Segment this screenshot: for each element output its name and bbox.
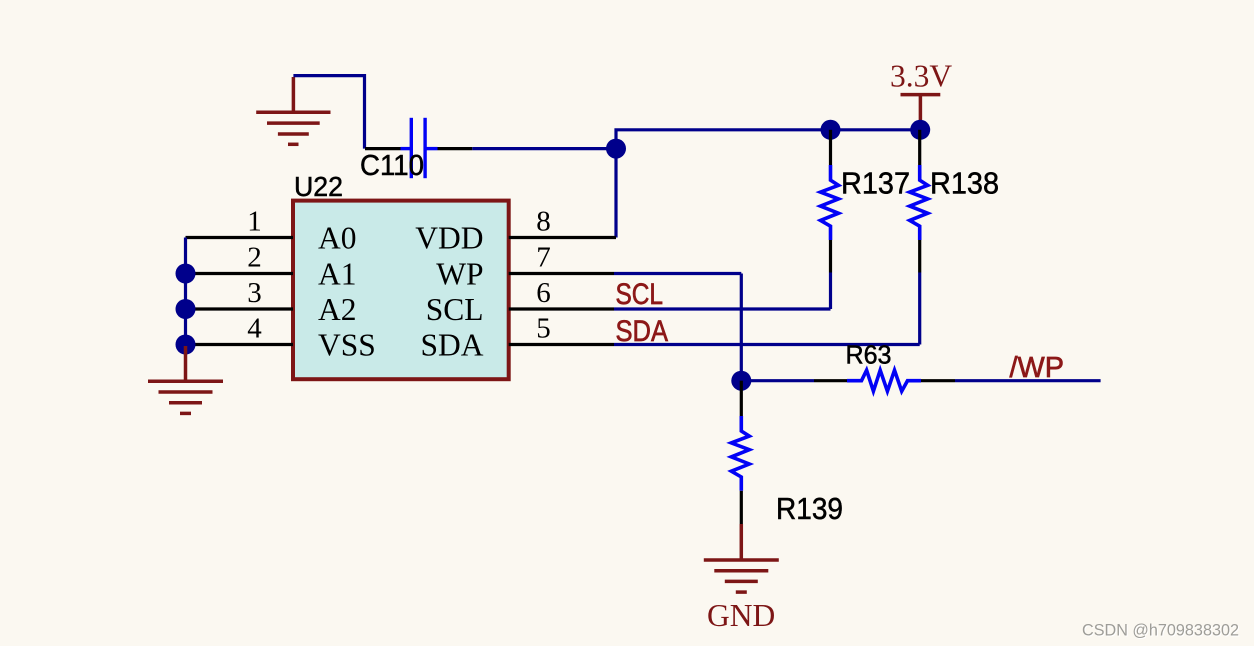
node: WP/R139/R63 junction	[731, 371, 751, 391]
resistor R137	[821, 130, 839, 309]
wire: junction to R63	[741, 379, 814, 382]
power 3.3V	[901, 95, 941, 126]
node: R137 top	[821, 120, 841, 140]
wire: WP net vertical down	[740, 274, 743, 381]
node: pin3 junction	[176, 299, 196, 319]
wire: left pins vertical bus	[184, 238, 187, 345]
svg-text:6: 6	[536, 277, 551, 309]
svg-text:R63: R63	[846, 340, 892, 370]
ground (left, below pin 4)	[148, 346, 223, 413]
pin 7 wire	[509, 272, 614, 275]
wire: SDA net	[614, 343, 920, 346]
capacitor C110	[365, 118, 472, 178]
IC U22 body	[293, 201, 509, 380]
pin 1 wire	[186, 236, 294, 239]
node: pin4 junction	[176, 335, 196, 355]
resistor R138	[910, 130, 928, 345]
pin 5 wire	[509, 343, 614, 346]
wire: top-left ground to capacitor	[293, 76, 364, 149]
pin 4 wire	[186, 343, 294, 346]
svg-text:A0: A0	[318, 221, 357, 256]
wire: WP net horizontal	[614, 272, 741, 275]
svg-text:C110: C110	[360, 150, 424, 182]
wire: junction down to VDD pin	[614, 149, 617, 238]
svg-text:VSS: VSS	[318, 328, 376, 363]
pin 2 wire	[186, 272, 294, 275]
wire: junction up and right to 3.3V rail	[616, 130, 920, 149]
svg-text:3: 3	[247, 277, 262, 309]
pin 8 wire	[509, 236, 616, 239]
wire: SCL net	[614, 307, 831, 310]
wire: R63 to /WP	[955, 379, 1101, 382]
svg-text:VDD: VDD	[415, 221, 483, 256]
svg-text:WP: WP	[436, 257, 483, 292]
svg-text:GND: GND	[707, 598, 775, 633]
svg-text:3.3V: 3.3V	[890, 58, 952, 93]
wire: capacitor to VDD junction	[472, 147, 616, 150]
ground (top-left)	[256, 77, 330, 144]
svg-text:CSDN @h709838302: CSDN @h709838302	[1082, 622, 1239, 640]
node: VDD junction	[606, 139, 626, 159]
node: pin2 junction	[176, 264, 196, 284]
svg-text:5: 5	[536, 313, 551, 345]
svg-text:SCL: SCL	[616, 278, 664, 311]
ground (bottom GND)	[704, 524, 779, 592]
svg-text:R137: R137	[841, 166, 910, 201]
svg-text:SCL: SCL	[426, 292, 484, 327]
svg-text:SDA: SDA	[420, 328, 483, 363]
svg-text:4: 4	[247, 313, 262, 345]
svg-text:A1: A1	[318, 257, 357, 292]
svg-text:2: 2	[247, 242, 262, 274]
svg-text:R138: R138	[930, 166, 999, 201]
svg-text:/WP: /WP	[1010, 352, 1065, 384]
pin 6 wire	[509, 307, 614, 310]
resistor R139	[731, 381, 749, 524]
node: R138 top / 3.3V	[910, 120, 930, 140]
svg-text:A2: A2	[318, 292, 357, 327]
pin 3 wire	[186, 307, 294, 310]
svg-text:R139: R139	[776, 491, 843, 526]
svg-text:SDA: SDA	[616, 315, 669, 348]
svg-text:U22: U22	[294, 171, 343, 202]
resistor R63	[814, 370, 955, 391]
svg-text:8: 8	[536, 206, 551, 238]
svg-text:1: 1	[247, 206, 262, 238]
svg-text:7: 7	[536, 242, 551, 274]
